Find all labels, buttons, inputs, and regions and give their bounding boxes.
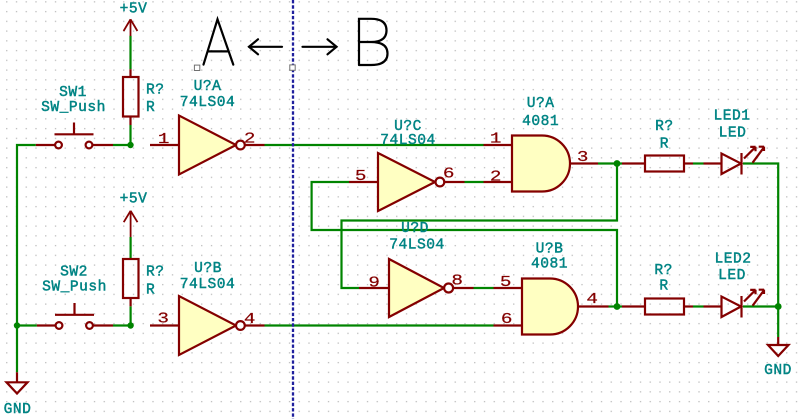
- svg-text:LED: LED: [719, 126, 747, 142]
- wire +5V#2 to R2 top: [130, 237, 132, 259]
- svg-text:R: R: [660, 136, 669, 152]
- svg-text:4081: 4081: [531, 257, 568, 273]
- node B junction gate U?B output: [614, 303, 621, 310]
- svg-text:74LS04: 74LS04: [380, 133, 436, 149]
- svg-text:U?D: U?D: [401, 221, 429, 237]
- handle square below letter A: [194, 65, 199, 70]
- svg-text:U?B: U?B: [194, 261, 222, 277]
- inverter U?D 74LS04: [359, 259, 474, 317]
- resistor R2 (vertical, bottom-left): [123, 259, 139, 306]
- node junction SW2/R2 row2: [127, 322, 133, 328]
- wire SW1 right to junction: [113, 144, 131, 146]
- dashed page-split line: [292, 0, 294, 419]
- resistor R1 (vertical, top-left): [123, 69, 139, 125]
- wire U?D output to AND gate U?B pin5: [474, 287, 494, 289]
- svg-text:R: R: [146, 282, 155, 298]
- wire feedback from node A down-left to U?D pin9: [342, 164, 618, 289]
- svg-text:9: 9: [368, 275, 380, 291]
- svg-text:LED: LED: [718, 268, 746, 284]
- svg-text:R: R: [146, 100, 155, 116]
- svg-text:R: R: [659, 279, 668, 295]
- switch SW1 SW_Push: [36, 123, 113, 149]
- svg-text:R?: R?: [655, 119, 674, 135]
- svg-text:5: 5: [355, 169, 367, 185]
- wire R1 bottom to junction row1: [129, 125, 131, 146]
- graphic letter A: [204, 19, 234, 64]
- svg-text:GND: GND: [764, 363, 792, 379]
- svg-text:LED2: LED2: [714, 252, 751, 268]
- wire R4 right to LED2: [693, 305, 704, 307]
- wire gate U?B pin4 out to node: [609, 305, 623, 307]
- resistor R4 (horizontal, bottom-right): [622, 299, 693, 315]
- svg-text:8: 8: [451, 273, 463, 289]
- wire feedback from node B up-left to U?C pin5: [312, 182, 617, 307]
- svg-text:3: 3: [157, 311, 169, 327]
- svg-text:5: 5: [500, 275, 512, 291]
- ground GND left: [7, 372, 28, 393]
- svg-text:3: 3: [577, 150, 589, 166]
- wire SW2 left: [16, 324, 37, 326]
- power +5V symbol top: [124, 19, 138, 36]
- graphic letter B: [359, 19, 388, 65]
- power +5V symbol bottom: [124, 211, 138, 237]
- svg-text:2: 2: [490, 169, 502, 185]
- AND gate U?B 4081: [494, 279, 609, 335]
- handle square on dashed line: [290, 65, 295, 70]
- svg-text:+5V: +5V: [120, 1, 148, 17]
- wire SW2 right to junction: [113, 324, 131, 326]
- node junction SW1/R1 row1: [127, 142, 133, 148]
- wire LED2 out to right vertical: [743, 305, 778, 307]
- svg-text:74LS04: 74LS04: [389, 238, 445, 254]
- wire R3 right to LED1: [693, 162, 704, 164]
- svg-text:R?: R?: [146, 265, 165, 281]
- svg-text:4: 4: [244, 312, 256, 328]
- svg-text:SW_Push: SW_Push: [42, 280, 107, 296]
- resistor R3 (horizontal, top-right): [622, 156, 693, 172]
- diode LED1: [704, 147, 765, 175]
- svg-text:1: 1: [490, 131, 502, 147]
- svg-text:4: 4: [586, 292, 598, 308]
- svg-text:1: 1: [158, 132, 170, 148]
- wire: [16, 36, 778, 373]
- diode LED2: [704, 290, 765, 318]
- wire R2 bottom to junction row2: [130, 306, 132, 326]
- svg-text:U?B: U?B: [536, 242, 564, 258]
- graphic right arrow: [303, 39, 337, 54]
- svg-text:2: 2: [244, 131, 256, 147]
- svg-text:SW_Push: SW_Push: [41, 100, 106, 116]
- svg-text:R?: R?: [146, 83, 165, 99]
- wire inverter U?A output to AND gate U?A pin1: [265, 144, 484, 146]
- svg-text:74LS04: 74LS04: [180, 95, 236, 111]
- wire inverter U?B output to AND gate U?B pin6: [265, 324, 494, 326]
- svg-text:6: 6: [443, 166, 455, 182]
- node junction LED2 right vertical: [775, 303, 782, 310]
- AND gate U?A 4081: [484, 136, 599, 192]
- svg-text:6: 6: [501, 312, 513, 328]
- inverter U?C 74LS04: [349, 153, 465, 211]
- svg-text:U?A: U?A: [527, 96, 555, 112]
- wire +5V#1 to R1 top: [129, 36, 131, 69]
- svg-text:U?A: U?A: [194, 79, 222, 95]
- svg-text:4081: 4081: [522, 114, 559, 130]
- svg-text:R?: R?: [654, 263, 673, 279]
- svg-text:LED1: LED1: [713, 109, 750, 125]
- inverter U?A 74LS04: [150, 116, 265, 175]
- graphic left arrow: [249, 39, 282, 54]
- node junction left bus row2: [14, 322, 20, 328]
- svg-text:74LS04: 74LS04: [180, 277, 236, 293]
- svg-text:SW1: SW1: [59, 85, 87, 101]
- svg-text:+5V: +5V: [120, 192, 148, 208]
- inverter U?B 74LS04: [150, 296, 265, 355]
- svg-text:GND: GND: [4, 402, 32, 418]
- switch SW2 SW_Push: [37, 303, 113, 329]
- node A junction gate U?A output: [614, 160, 621, 167]
- ground GND right: [768, 337, 789, 356]
- svg-text:SW2: SW2: [60, 265, 88, 281]
- wire LED1 out right and down right-side vertical: [743, 164, 778, 338]
- wire gate U?A pin3 out to node: [598, 162, 622, 164]
- wire left vertical bus from SW1 row down to GND: [17, 145, 36, 372]
- wire U?C output to AND gate U?A pin2: [465, 181, 484, 183]
